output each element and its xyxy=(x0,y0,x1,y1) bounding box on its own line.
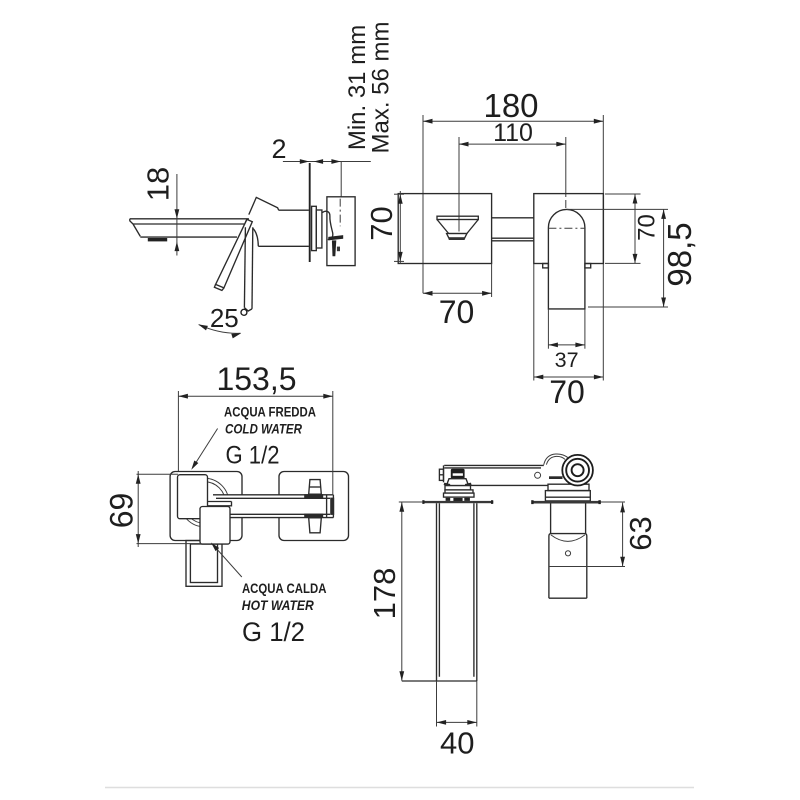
svg-text:18: 18 xyxy=(141,167,176,201)
svg-text:70: 70 xyxy=(634,214,661,241)
svg-text:Max. 56 mm: Max. 56 mm xyxy=(368,21,395,153)
svg-text:2: 2 xyxy=(271,134,286,164)
svg-text:153,5: 153,5 xyxy=(216,361,296,397)
svg-text:ACQUA CALDA: ACQUA CALDA xyxy=(242,580,327,596)
svg-text:G 1/2: G 1/2 xyxy=(242,617,305,647)
svg-text:98,5: 98,5 xyxy=(661,222,698,286)
svg-text:70: 70 xyxy=(439,294,475,330)
svg-text:40: 40 xyxy=(440,726,474,761)
svg-text:69: 69 xyxy=(103,493,139,529)
svg-text:HOT WATER: HOT WATER xyxy=(242,597,315,613)
svg-text:G 1/2: G 1/2 xyxy=(226,442,280,470)
svg-text:70: 70 xyxy=(549,374,585,410)
svg-text:110: 110 xyxy=(493,119,533,147)
svg-text:COLD WATER: COLD WATER xyxy=(225,421,303,437)
svg-text:178: 178 xyxy=(367,568,402,620)
svg-text:37: 37 xyxy=(555,348,579,372)
svg-text:70: 70 xyxy=(364,206,399,240)
svg-text:63: 63 xyxy=(623,516,658,550)
svg-text:25°: 25° xyxy=(210,303,249,333)
svg-text:ACQUA FREDDA: ACQUA FREDDA xyxy=(224,404,316,420)
